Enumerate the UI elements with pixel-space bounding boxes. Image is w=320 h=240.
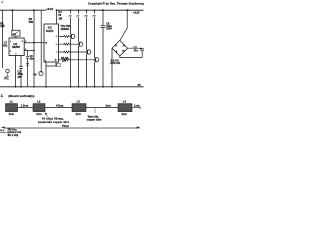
resistor R4 supply dropper	[56, 10, 58, 24]
wire: bridge AC feed	[120, 10, 127, 40]
transistor Q1	[71, 34, 75, 40]
svg-text:4: 4	[56, 44, 57, 46]
capacitor C6 branch	[101, 10, 106, 87]
svg-text:2cm: 2cm	[76, 112, 82, 116]
svg-text:56k: 56k	[29, 20, 34, 24]
wire: coil tap line 4	[94, 10, 96, 87]
svg-text:1.5cm: 1.5cm	[21, 104, 29, 108]
capacitor C7	[120, 48, 144, 57]
svg-text:2cm: 2cm	[36, 112, 42, 116]
wire: bridge bottom stub	[119, 56, 121, 58]
svg-text:+8.2V: +8.2V	[133, 12, 140, 15]
wire: base drive 4 with resistor R8	[59, 59, 95, 61]
svg-text:Pb: Pb	[33, 74, 37, 77]
wire: base drive 1 with resistor R5	[59, 36, 71, 38]
svg-text:7: 7	[56, 52, 57, 54]
diode D1	[26, 63, 29, 66]
svg-text:4in x 1in): 4in x 1in)	[7, 134, 18, 137]
inductor L4	[118, 104, 132, 112]
svg-text:3: 3	[25, 41, 26, 43]
svg-text:6: 6	[25, 49, 26, 51]
op-amp U1: IC1 timer box	[9, 38, 24, 56]
terminal S1	[39, 71, 43, 75]
svg-text:10n: 10n	[30, 58, 35, 61]
svg-text:4 9: 4 9	[93, 16, 97, 18]
svg-text:4.5cm: 4.5cm	[56, 104, 64, 108]
capacitor C2 on pin5	[19, 56, 23, 87]
wire: IC1 bottom pin to 0V	[15, 56, 17, 87]
svg-text:L4: L4	[123, 99, 127, 103]
svg-text:0V: 0V	[138, 83, 141, 87]
wire: L4 tail	[132, 106, 140, 110]
svg-text:2cm: 2cm	[9, 112, 15, 116]
svg-text:L1: L1	[10, 100, 14, 104]
wire: 0V bottom rail	[0, 86, 144, 88]
svg-text:47n: 47n	[3, 44, 8, 47]
wire: L3 to L4	[86, 107, 118, 109]
wire: vertical to preset	[12, 10, 14, 30]
svg-text:(Mount vertically).: (Mount vertically).	[8, 94, 35, 98]
svg-text:2.: 2.	[1, 94, 4, 98]
svg-text:8: 8	[22, 41, 23, 43]
svg-text:1cm: 1cm	[134, 104, 140, 108]
wire: IC1 output pins	[24, 43, 34, 51]
svg-text:L3: L3	[77, 99, 81, 103]
transistor Q2	[79, 41, 83, 47]
wire: coil tap line 3	[86, 10, 88, 87]
svg-text:L2: L2	[37, 99, 41, 103]
wire: left branch vertical	[1, 10, 3, 68]
svg-text:1W: 1W	[58, 17, 62, 20]
svg-text:enamelled copper wire: enamelled copper wire	[38, 121, 70, 124]
wire: clock line to IC2	[34, 42, 44, 44]
svg-text:2cm: 2cm	[106, 104, 112, 108]
svg-text:75cm: 75cm	[62, 124, 69, 128]
wire: coil tap line 1	[70, 10, 72, 87]
svg-text:250V: 250V	[106, 28, 112, 31]
wire: vertical to terminal S1	[40, 10, 42, 72]
wire: IC2 reset pins	[46, 62, 56, 87]
wire: top supply rail	[0, 9, 144, 11]
svg-text:2: 2	[10, 51, 11, 53]
wire: coil tap line 2	[78, 10, 80, 87]
svg-text:copper tube: copper tube	[87, 117, 102, 121]
svg-text:14: 14	[45, 43, 47, 45]
svg-text:+8.2V: +8.2V	[46, 7, 53, 11]
bridge rectifier D2-D5	[112, 40, 128, 56]
svg-text:L1-4: L1-4	[0, 129, 5, 132]
wire: base drive 3 with resistor R7	[59, 51, 87, 53]
resistor R2 vertical line	[33, 10, 35, 87]
wire: L2 to L3	[45, 107, 72, 109]
artifact dot	[1, 1, 3, 3]
inductor L2	[33, 104, 45, 112]
leader: copper tube note	[94, 108, 96, 113]
wire: L1 to L2	[18, 107, 34, 109]
svg-text:10: 10	[55, 59, 57, 61]
svg-text:1: 1	[16, 54, 17, 56]
svg-text:16V: 16V	[17, 76, 22, 79]
wire: bridge left leg to 0V	[111, 48, 113, 87]
svg-text:2N3904: 2N3904	[61, 28, 70, 31]
op-amp U2: IC2 counter box	[44, 24, 59, 62]
inductor L1	[6, 104, 18, 112]
svg-text:2: 2	[56, 36, 57, 38]
transistor Q3	[87, 49, 91, 55]
svg-text:10k: 10k	[0, 24, 5, 28]
svg-text:NE555: NE555	[12, 46, 20, 49]
svg-text:3 8: 3 8	[85, 16, 89, 18]
node: rail junction dots	[12, 9, 129, 11]
capacitor C3 and diode D1 branch	[27, 51, 29, 87]
transistor Q4	[95, 57, 99, 63]
preset VR1	[12, 30, 20, 36]
leader arrow: winding note	[45, 113, 50, 121]
svg-text:4017B: 4017B	[46, 30, 54, 33]
svg-text:1 6: 1 6	[69, 16, 73, 18]
dimension line 75cm	[4, 127, 140, 129]
svg-text:2cm: 2cm	[122, 112, 128, 116]
terminal TP1	[6, 69, 10, 73]
wire: base drive 2 with resistor R6	[59, 43, 79, 45]
svg-text:2 7: 2 7	[77, 16, 81, 18]
svg-text:47u: 47u	[134, 49, 139, 52]
svg-text:TP1: TP1	[4, 78, 9, 81]
svg-text:Copyright © by Rev. Thomas Sca: Copyright © by Rev. Thomas Scarborough	[88, 2, 144, 6]
inductor L3	[72, 104, 86, 112]
svg-text:7: 7	[10, 41, 11, 43]
